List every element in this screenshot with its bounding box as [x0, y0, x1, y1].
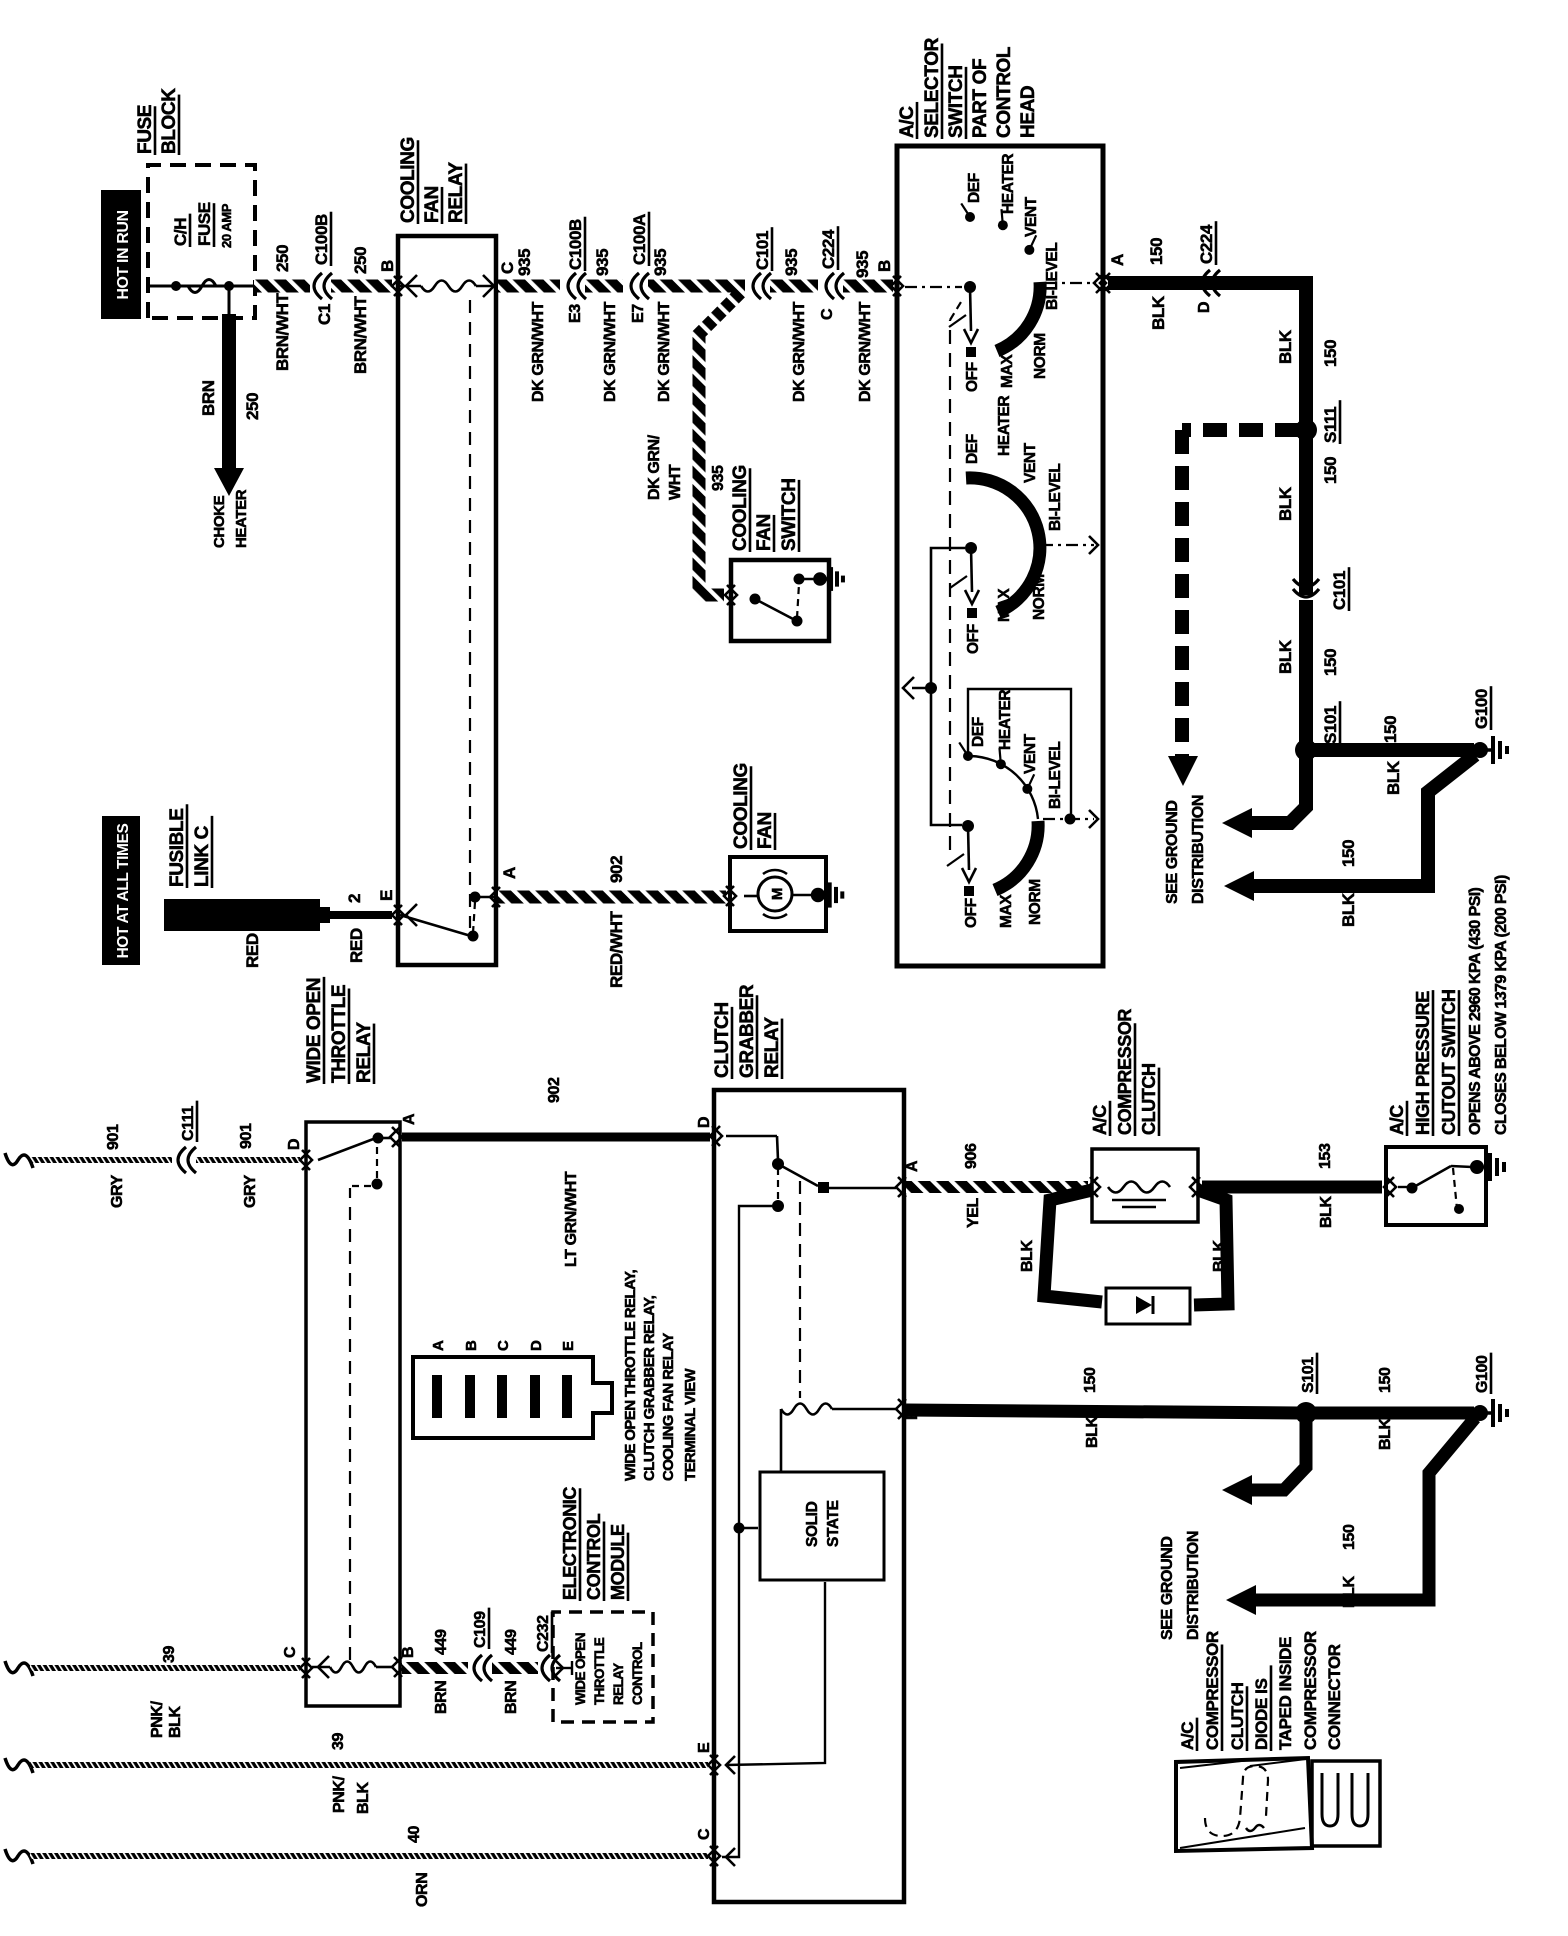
svg-text:DK GRN/WHT: DK GRN/WHT — [530, 301, 547, 402]
svg-text:RELAY: RELAY — [446, 162, 467, 223]
svg-text:WIDE OPEN: WIDE OPEN — [573, 1633, 588, 1705]
svg-text:E3: E3 — [567, 304, 584, 323]
connector C101 on ground wire — [1293, 589, 1319, 597]
svg-text:B: B — [400, 1647, 417, 1658]
svg-text:RED: RED — [243, 933, 262, 968]
YEL label — [965, 1197, 982, 1228]
svg-text:GRY: GRY — [242, 1174, 259, 1208]
svg-text:BLK: BLK — [1377, 1417, 1394, 1450]
svg-text:TAPED INSIDE: TAPED INSIDE — [1276, 1637, 1295, 1750]
see ground distribution label upper — [1164, 800, 1181, 904]
svg-text:CHOKE: CHOKE — [211, 495, 228, 548]
ground G100 — [1472, 742, 1488, 758]
svg-text:150: 150 — [1321, 457, 1340, 484]
svg-text:CONTROL: CONTROL — [630, 1642, 645, 1705]
svg-text:CONNECTOR: CONNECTOR — [1325, 1644, 1344, 1750]
svg-text:C: C — [819, 308, 836, 320]
svg-text:C111: C111 — [180, 1106, 197, 1141]
svg-text:DEF: DEF — [964, 434, 981, 464]
wire 935 branch to cooling fan switch — [699, 291, 742, 595]
DK GRN/WHT label — [530, 301, 547, 402]
BRN label — [199, 380, 218, 416]
A/C compressor clutch label — [1090, 1101, 1110, 1136]
electronic control module label — [560, 1487, 580, 1601]
svg-text:CLUTCH: CLUTCH — [712, 1002, 733, 1078]
BLK label — [1384, 760, 1403, 795]
A/C compressor clutch box — [1092, 1149, 1198, 1222]
250 label — [243, 393, 262, 420]
svg-text:G100: G100 — [1474, 1355, 1491, 1393]
wire 901 GRY from top — [5, 1153, 33, 1168]
A/C selector switch box — [897, 146, 1103, 966]
pin D label — [696, 1117, 713, 1128]
150 label — [1147, 238, 1166, 265]
svg-text:C100A: C100A — [630, 214, 649, 265]
svg-text:902: 902 — [546, 1077, 563, 1103]
svg-text:YEL: YEL — [965, 1197, 982, 1228]
cooling fan switch ground — [813, 572, 827, 586]
svg-text:RELAY: RELAY — [354, 1022, 375, 1083]
switch2 output dash-dot arrow — [1041, 544, 1094, 546]
svg-text:449: 449 — [503, 1629, 520, 1655]
wire 153 BLK clutch to pressure switch — [1202, 1181, 1382, 1194]
ground G100 lower — [1472, 1405, 1488, 1421]
switch2 wiper feed wire — [931, 548, 965, 684]
svg-text:LINK C: LINK C — [192, 825, 213, 887]
wire 2 RED — [330, 911, 392, 919]
fuse wire — [150, 285, 256, 288]
RED label — [347, 928, 366, 963]
BRN/WHT label — [273, 293, 292, 371]
svg-text:HEATER: HEATER — [233, 489, 250, 548]
svg-text:BRN/WHT: BRN/WHT — [351, 296, 370, 374]
fusible link C label — [167, 804, 188, 888]
svg-text:HIGH PRESSURE: HIGH PRESSURE — [1413, 991, 1433, 1135]
svg-text:C: C — [495, 1340, 512, 1351]
svg-text:902: 902 — [607, 856, 626, 883]
see ground distribution label lower — [1159, 1536, 1176, 1640]
wide open throttle relay label — [304, 977, 325, 1084]
svg-text:LT GRN/WHT: LT GRN/WHT — [563, 1171, 580, 1267]
svg-text:FUSIBLE: FUSIBLE — [167, 809, 188, 887]
WOT relay coil — [318, 1656, 329, 1678]
svg-text:SELECTOR: SELECTOR — [922, 37, 943, 138]
250 label — [273, 245, 292, 272]
150 label — [1082, 1367, 1099, 1393]
svg-text:CLUTCH: CLUTCH — [1139, 1063, 1159, 1135]
svg-text:150: 150 — [1147, 238, 1166, 265]
connector C111 — [178, 1147, 186, 1173]
svg-text:CLUTCH GRABBER RELAY,: CLUTCH GRABBER RELAY, — [641, 1295, 658, 1481]
svg-text:DEF: DEF — [966, 173, 983, 203]
svg-text:150: 150 — [1377, 1367, 1394, 1393]
svg-text:DK GRN/: DK GRN/ — [646, 434, 663, 500]
svg-text:DK GRN/WHT: DK GRN/WHT — [656, 301, 673, 402]
svg-text:RED/WHT: RED/WHT — [607, 910, 626, 988]
svg-text:DISTRIBUTION: DISTRIBUTION — [1185, 1531, 1202, 1640]
compressor clutch BLK loop upper — [1044, 1190, 1102, 1302]
svg-text:150: 150 — [1341, 1524, 1358, 1550]
compressor clutch BLK loop lower — [1194, 1190, 1228, 1305]
wire 449 BRN C109 to C232 — [492, 1662, 538, 1674]
pin D label — [286, 1139, 303, 1150]
svg-text:ORN: ORN — [414, 1873, 431, 1907]
svg-text:FAN: FAN — [754, 514, 775, 551]
svg-text:BRN: BRN — [433, 1681, 450, 1714]
S101 stub to ground distribution — [1248, 750, 1306, 823]
svg-text:COOLING: COOLING — [398, 137, 419, 223]
choke heater feed arrow BRN 250 — [228, 286, 231, 314]
svg-text:FUSE: FUSE — [135, 105, 156, 154]
cooling fan relay label — [398, 137, 419, 224]
pressure switch ground — [1477, 1166, 1489, 1169]
svg-text:153: 153 — [1317, 1143, 1334, 1169]
svg-text:S101: S101 — [1300, 1357, 1317, 1393]
ECM dashed box — [553, 1612, 653, 1722]
HOT IN RUN banner — [101, 190, 141, 319]
BRN/WHT label — [351, 296, 370, 374]
svg-text:BLK: BLK — [1384, 760, 1403, 795]
svg-text:FAN: FAN — [422, 186, 443, 223]
svg-text:C/H: C/H — [171, 218, 190, 246]
wire 935 C101 to C224 — [770, 280, 818, 293]
cooling fan label — [731, 763, 752, 850]
svg-text:NORM: NORM — [1027, 879, 1044, 925]
svg-text:150: 150 — [1339, 840, 1358, 867]
relay terminal view box — [413, 1357, 612, 1438]
RED label — [243, 933, 262, 968]
S101 lower stub to ground distribution — [1250, 1413, 1306, 1490]
svg-text:SOLID: SOLID — [804, 1501, 821, 1547]
fuse node upper — [171, 281, 181, 291]
901 label — [238, 1123, 255, 1149]
935 label — [710, 465, 727, 491]
906 label — [963, 1143, 980, 1169]
svg-text:COOLING: COOLING — [730, 465, 751, 551]
svg-text:COMPRESSOR: COMPRESSOR — [1115, 1009, 1135, 1135]
HOT AT ALL TIMES banner — [102, 816, 140, 965]
svg-text:BLK: BLK — [355, 1781, 372, 1814]
150 label — [1339, 840, 1358, 867]
wire 935 relay pin C to C100B — [498, 280, 560, 293]
svg-text:935: 935 — [651, 249, 670, 276]
fuse block label — [135, 105, 156, 155]
CGR pin E internal wire — [726, 1756, 735, 1774]
pin E label — [377, 890, 396, 901]
wire 935 C100A to C101 — [648, 280, 745, 293]
ECM internal wire stub — [556, 1667, 572, 1669]
connector C100A E7 — [631, 273, 639, 299]
compressor connector illustration body — [1176, 1758, 1312, 1851]
svg-text:OFF: OFF — [964, 362, 981, 392]
rotary switch 4 — [962, 820, 974, 832]
svg-text:DK GRN/WHT: DK GRN/WHT — [791, 301, 808, 402]
CGR coil — [780, 1409, 783, 1472]
svg-text:HEATER: HEATER — [1000, 154, 1017, 214]
svg-text:FUSE: FUSE — [195, 202, 214, 246]
wire 902 RED/WHT relay to cooling fan — [498, 891, 726, 904]
svg-text:DISTRIBUTION: DISTRIBUTION — [1190, 795, 1207, 904]
wire 150 BLK C101 to S101 — [1299, 600, 1313, 750]
901 label — [105, 1124, 122, 1150]
rotary switch 2 — [965, 542, 977, 554]
svg-text:250: 250 — [273, 245, 292, 272]
wire 902 LT GRN/WHT WOT pin A to CGR pin D — [402, 1133, 710, 1142]
wire 150 BLK corner to S111 — [1299, 283, 1313, 430]
svg-text:OFF: OFF — [965, 624, 982, 654]
svg-text:C101: C101 — [753, 231, 772, 270]
switch1 labels — [964, 362, 981, 392]
39 label — [161, 1646, 178, 1663]
PNK/ BLK label — [149, 1700, 166, 1738]
150 label — [1341, 1524, 1358, 1550]
935 label — [515, 249, 534, 276]
G100 branch to ground distribution — [1250, 755, 1475, 886]
connector C232 — [542, 1655, 550, 1681]
switch1 output dash-dot to pin A — [1045, 282, 1096, 284]
BLK label — [1339, 892, 1358, 927]
wire 39 PNK/BLK from top — [5, 1661, 33, 1676]
svg-text:CONTROL: CONTROL — [994, 46, 1015, 138]
fuse node lower — [224, 281, 234, 291]
svg-text:935: 935 — [710, 465, 727, 491]
connector C224 D — [1202, 270, 1210, 296]
compressor clutch diode note — [1178, 1718, 1197, 1751]
wire 150 BLK selector pin A to corner — [1102, 273, 1112, 293]
svg-text:C1: C1 — [315, 304, 334, 325]
svg-text:901: 901 — [238, 1123, 255, 1149]
svg-text:D: D — [286, 1139, 303, 1150]
BLK label — [1276, 329, 1295, 364]
splice S101 — [1295, 739, 1317, 761]
CGR dashed linkage to coil — [799, 1181, 801, 1398]
wire 150 BLK S111 to C101 — [1299, 430, 1313, 595]
WOT relay switch — [318, 1138, 376, 1160]
switch4 def loop wire — [968, 689, 1071, 815]
DK GRN/WHT label — [602, 301, 619, 402]
svg-text:COOLING: COOLING — [731, 763, 752, 849]
wide open throttle relay control label — [573, 1633, 588, 1705]
svg-text:TERMINAL VIEW: TERMINAL VIEW — [682, 1368, 699, 1481]
pin C label — [498, 262, 517, 274]
clutch grabber relay box — [714, 1090, 904, 1902]
svg-text:E: E — [560, 1341, 577, 1351]
selector internal junction — [925, 682, 937, 694]
LT GRN/WHT label — [563, 1171, 580, 1267]
pin A label — [904, 1160, 921, 1172]
pin A label — [401, 1113, 418, 1125]
svg-text:D: D — [528, 1340, 545, 1351]
svg-text:BRN: BRN — [503, 1681, 520, 1714]
BRN label — [433, 1681, 450, 1714]
svg-text:906: 906 — [963, 1143, 980, 1169]
svg-text:A/C: A/C — [1178, 1722, 1197, 1750]
compressor connector illustration terminals — [1312, 1761, 1380, 1846]
pin B label — [875, 260, 894, 272]
svg-text:2: 2 — [345, 894, 364, 903]
C/H FUSE 20 AMP label — [171, 214, 190, 247]
splice S111 — [1295, 419, 1317, 441]
svg-text:HOT IN RUN: HOT IN RUN — [115, 210, 132, 299]
wire 250 BRN/WHT fuse to C100B — [254, 280, 310, 293]
svg-text:MODULE: MODULE — [608, 1524, 628, 1600]
svg-text:901: 901 — [105, 1124, 122, 1150]
A/C high pressure cutout switch box — [1386, 1147, 1486, 1225]
CGR dashed link wiper — [777, 1168, 779, 1200]
svg-text:WIDE OPEN THROTTLE RELAY,: WIDE OPEN THROTTLE RELAY, — [622, 1269, 639, 1481]
fuse block dashed box — [148, 165, 255, 318]
svg-text:S101: S101 — [1321, 706, 1340, 744]
GRY label — [109, 1174, 126, 1208]
wire 449 BRN WOT to C109 — [402, 1662, 468, 1674]
39 label — [330, 1733, 347, 1750]
svg-text:RELAY: RELAY — [611, 1663, 626, 1705]
svg-text:DK GRN/WHT: DK GRN/WHT — [857, 301, 874, 402]
svg-text:A: A — [904, 1160, 921, 1172]
svg-text:150: 150 — [1321, 340, 1340, 367]
CGR switch — [712, 1126, 722, 1146]
svg-text:C: C — [696, 1828, 713, 1840]
svg-text:A: A — [500, 867, 519, 879]
switch4 feed wire — [931, 692, 962, 825]
solid state label — [804, 1501, 821, 1547]
BLK label — [1276, 486, 1295, 521]
svg-text:VENT: VENT — [1022, 733, 1039, 774]
935 label — [593, 249, 612, 276]
BRN label — [503, 1681, 520, 1714]
svg-text:VENT: VENT — [1023, 196, 1040, 237]
wire 901 GRY C111 to WOT relay — [196, 1157, 300, 1163]
svg-text:CLUTCH: CLUTCH — [1228, 1682, 1247, 1750]
svg-text:VENT: VENT — [1022, 442, 1039, 483]
svg-text:935: 935 — [593, 249, 612, 276]
pressure switch contacts — [1386, 1177, 1396, 1197]
DK GRN/ WHT label — [646, 434, 663, 500]
cooling fan motor — [744, 895, 757, 898]
PNK/ BLK label — [331, 1775, 348, 1813]
svg-text:NORM: NORM — [1032, 333, 1049, 379]
150 label — [1321, 649, 1340, 676]
BLK label — [1084, 1415, 1101, 1448]
connector C100B E3 — [568, 273, 576, 299]
RED/WHT label — [607, 910, 626, 988]
svg-text:COMPRESSOR: COMPRESSOR — [1203, 1631, 1222, 1750]
svg-text:A/C: A/C — [897, 106, 918, 138]
svg-text:SWITCH: SWITCH — [946, 65, 967, 138]
svg-text:BI-LEVEL: BI-LEVEL — [1047, 464, 1064, 531]
svg-text:BRN: BRN — [199, 380, 218, 416]
svg-text:FAN: FAN — [755, 812, 776, 849]
solid state box — [760, 1472, 884, 1580]
switch2 labels — [965, 624, 982, 654]
svg-text:449: 449 — [433, 1629, 450, 1655]
wire 150 BLK S101 to G100 — [1306, 743, 1474, 757]
cooling fan relay box — [398, 236, 496, 965]
svg-text:BLK: BLK — [167, 1705, 184, 1738]
svg-text:B: B — [463, 1340, 480, 1351]
svg-text:A/C: A/C — [1387, 1105, 1407, 1135]
449 label — [433, 1629, 450, 1655]
svg-text:C224: C224 — [1197, 224, 1216, 264]
935 label — [782, 249, 801, 276]
connector C224 C — [826, 273, 834, 299]
svg-text:A: A — [1108, 254, 1127, 266]
svg-text:SEE GROUND: SEE GROUND — [1164, 800, 1181, 904]
svg-text:40: 40 — [406, 1826, 423, 1843]
svg-text:CONTROL: CONTROL — [584, 1513, 604, 1600]
DK GRN/WHT label — [857, 301, 874, 402]
svg-text:HEATER: HEATER — [996, 396, 1013, 456]
250 label — [351, 247, 370, 274]
40 label — [406, 1826, 423, 1843]
connector diode wire sketch — [1205, 1766, 1268, 1836]
svg-text:PNK/: PNK/ — [331, 1775, 348, 1813]
svg-text:HEAD: HEAD — [1018, 86, 1039, 138]
svg-text:BLK: BLK — [1149, 295, 1168, 330]
terminal slots — [432, 1375, 442, 1418]
svg-text:WHT: WHT — [667, 464, 684, 500]
svg-text:BLK: BLK — [1318, 1195, 1335, 1228]
svg-text:COMPRESSOR: COMPRESSOR — [1301, 1631, 1320, 1750]
cooling fan ground — [792, 894, 812, 897]
clutch grabber relay label — [712, 1002, 733, 1079]
terminal view note — [622, 1269, 639, 1481]
G100 lower branch to ground distribution — [1252, 1418, 1475, 1600]
BLK label — [1318, 1195, 1335, 1228]
svg-text:935: 935 — [782, 249, 801, 276]
svg-text:BLK: BLK — [1276, 329, 1295, 364]
clutch diode box — [1106, 1288, 1190, 1324]
svg-text:BI-LEVEL: BI-LEVEL — [1047, 742, 1064, 809]
svg-text:C232: C232 — [535, 1615, 552, 1652]
svg-text:250: 250 — [243, 393, 262, 420]
wide open throttle relay box — [306, 1122, 400, 1706]
svg-text:OPENS ABOVE 2960 KPA (430 PSI): OPENS ABOVE 2960 KPA (430 PSI) — [1467, 887, 1484, 1135]
pin C label — [696, 1828, 713, 1840]
svg-text:GRY: GRY — [109, 1174, 126, 1208]
svg-text:E: E — [377, 890, 396, 901]
svg-text:BLK: BLK — [1341, 1575, 1358, 1608]
svg-text:A: A — [401, 1113, 418, 1125]
150 label — [1381, 716, 1400, 743]
cooling fan relay coil — [406, 275, 417, 297]
svg-text:DIODE IS: DIODE IS — [1252, 1679, 1271, 1750]
fusible link C bar — [164, 899, 320, 931]
svg-text:39: 39 — [330, 1733, 347, 1750]
svg-text:WIDE OPEN: WIDE OPEN — [304, 978, 325, 1083]
WOT relay dashed linkage — [349, 1188, 351, 1660]
svg-text:C100B: C100B — [566, 219, 585, 270]
cooling fan switch contacts — [750, 594, 761, 605]
selector spare pin arrow — [912, 687, 931, 690]
svg-text:D: D — [696, 1117, 713, 1128]
150 label — [1321, 457, 1340, 484]
svg-text:M: M — [769, 888, 786, 900]
svg-text:D: D — [1196, 302, 1213, 313]
pin A label — [500, 867, 519, 879]
449 label — [503, 1629, 520, 1655]
fuse symbol — [188, 280, 216, 293]
svg-text:150: 150 — [1381, 716, 1400, 743]
svg-text:PART OF: PART OF — [970, 59, 991, 138]
svg-text:GRABBER: GRABBER — [737, 984, 758, 1078]
pin B label — [400, 1647, 417, 1658]
cooling fan box — [730, 857, 826, 931]
2 label — [345, 894, 364, 903]
svg-text:BRN/WHT: BRN/WHT — [273, 293, 292, 371]
902 label — [546, 1077, 563, 1103]
svg-text:BLK: BLK — [1211, 1239, 1228, 1272]
